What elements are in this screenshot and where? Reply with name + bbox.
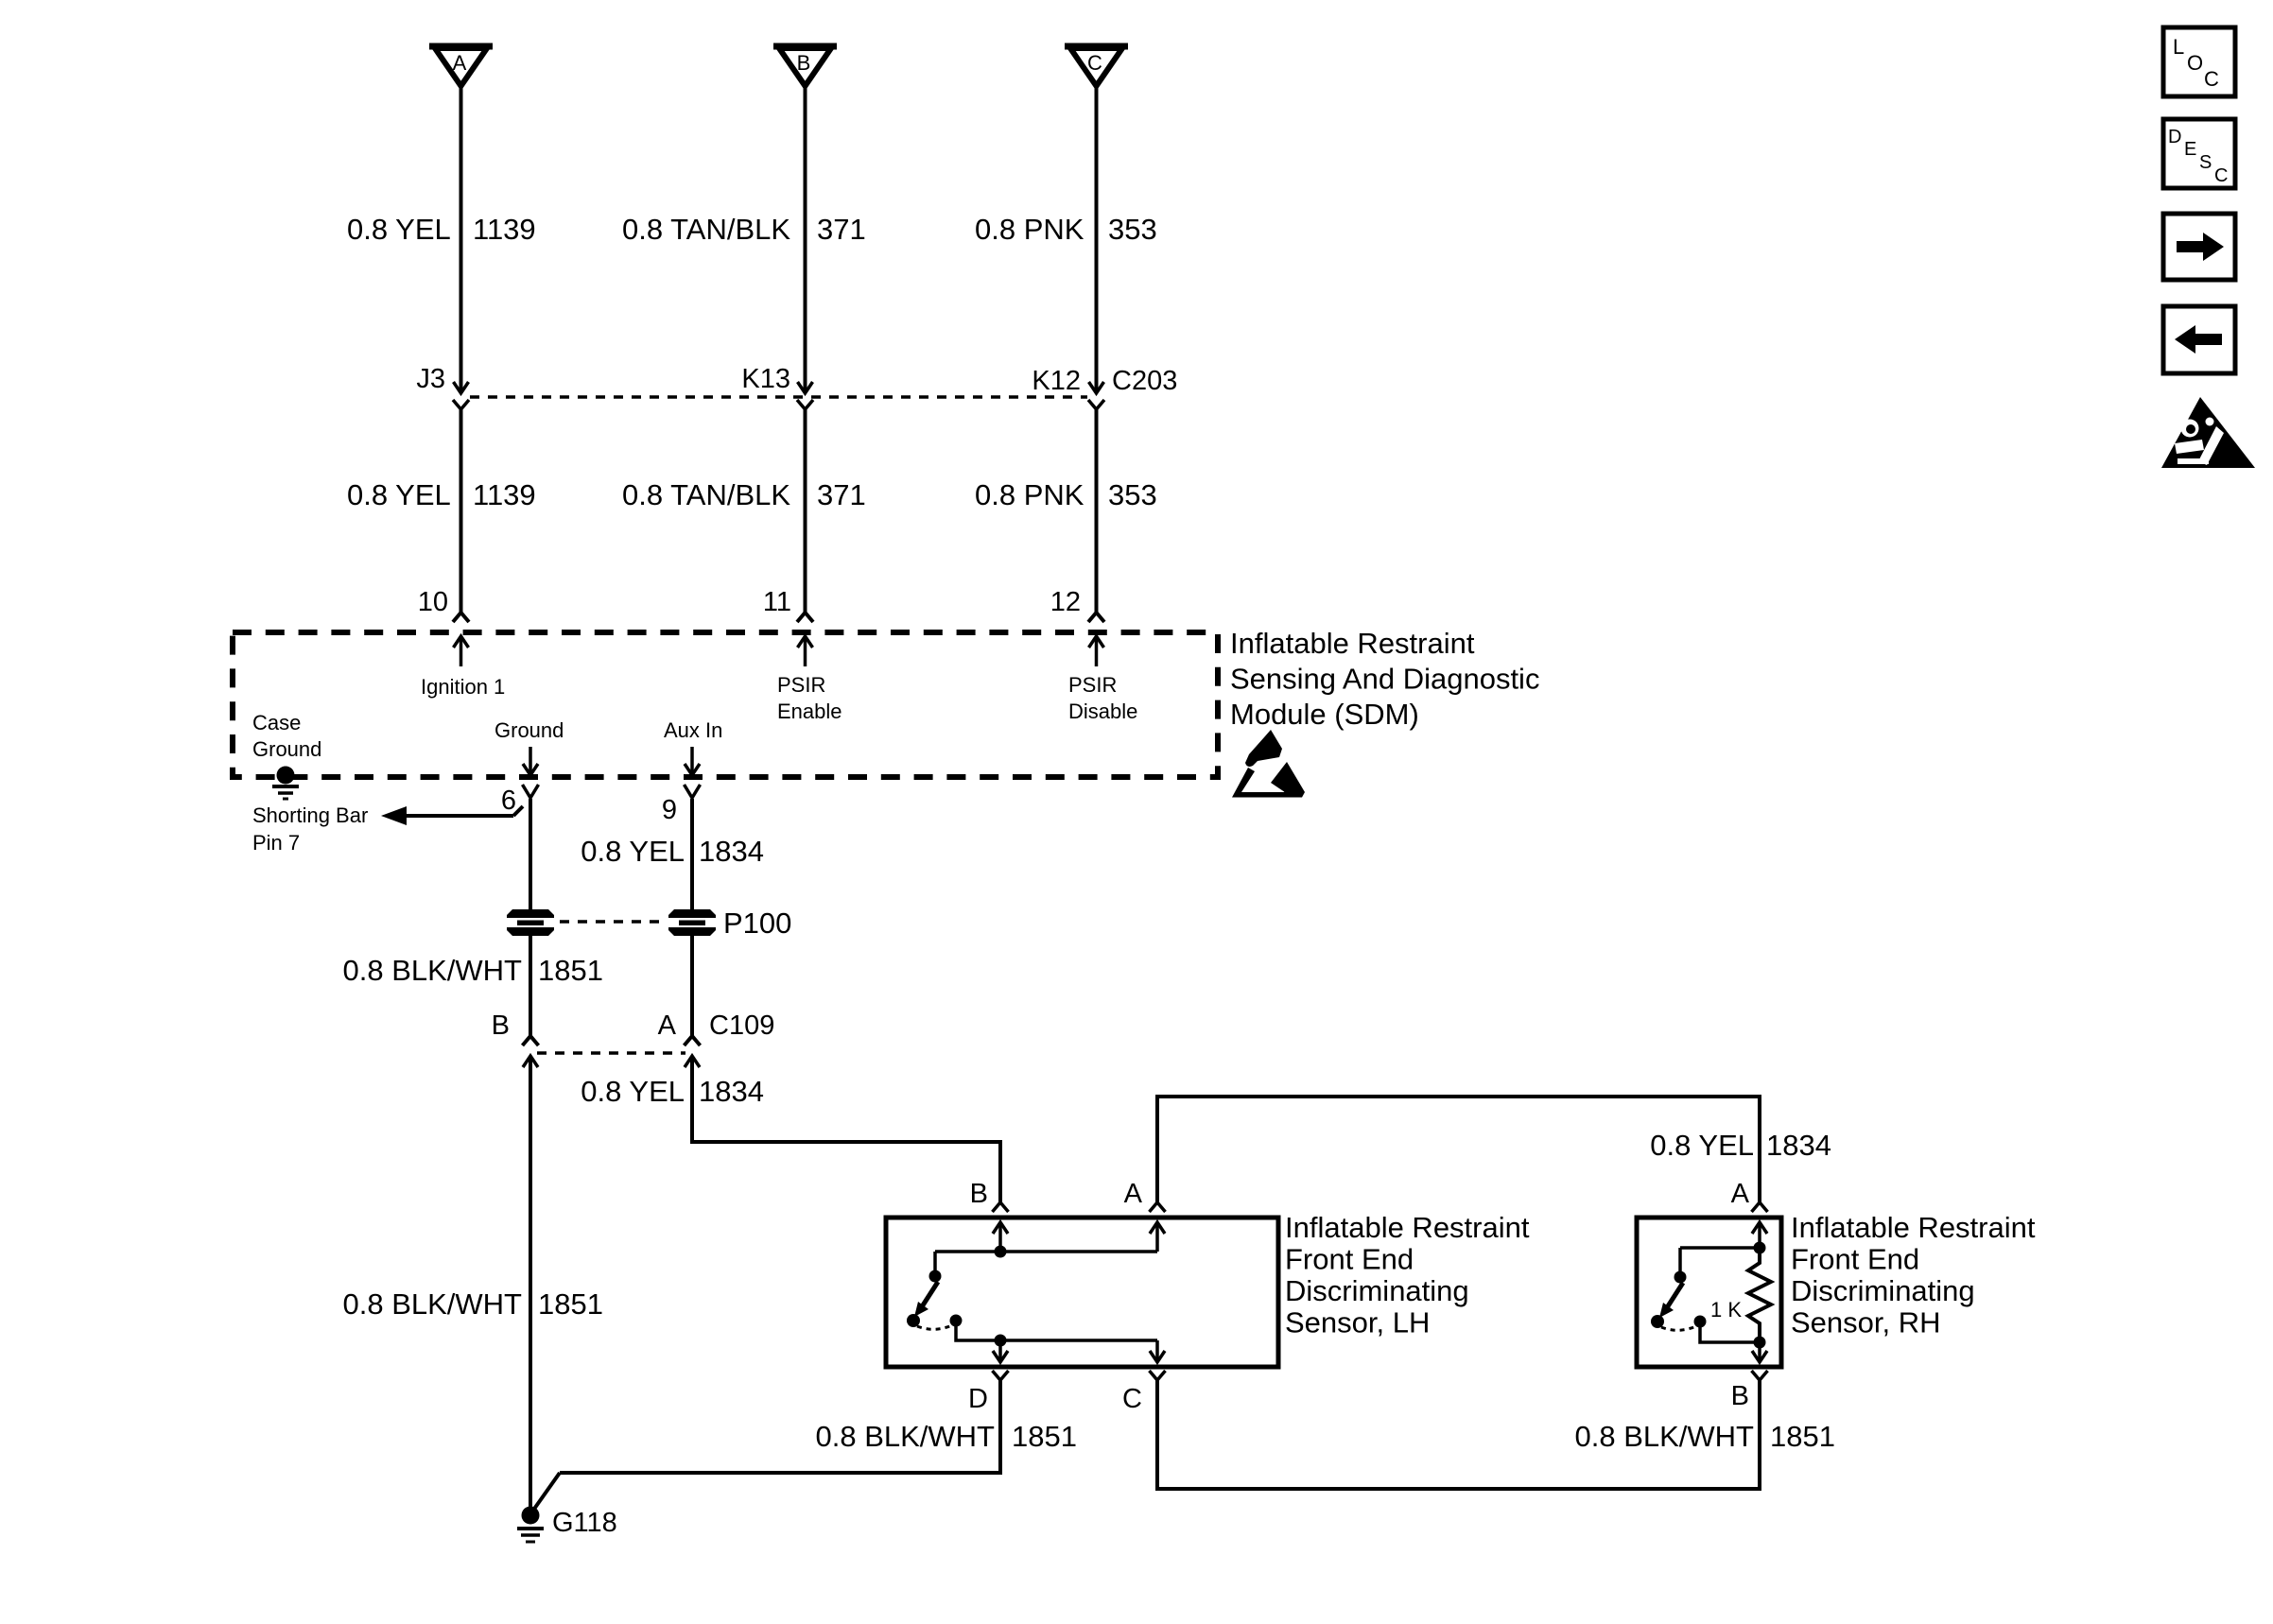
left-arrow legend box: [2163, 306, 2235, 373]
svg-text:0.8 PNK: 0.8 PNK: [975, 213, 1084, 246]
svg-text:A: A: [453, 51, 467, 75]
svg-text:K12: K12: [1032, 366, 1081, 396]
svg-text:1851: 1851: [538, 954, 603, 987]
right-arrow legend box: [2163, 214, 2235, 280]
wire pin6 to P100: [529, 799, 532, 910]
svg-text:Pin 7: Pin 7: [252, 831, 300, 855]
LH internal top rail: [935, 1250, 1157, 1253]
svg-text:G118: G118: [552, 1508, 617, 1538]
svg-text:1834: 1834: [699, 1075, 764, 1108]
label Shorting Bar Pin 7: [252, 803, 368, 855]
svg-text:353: 353: [1108, 478, 1157, 511]
svg-text:Sensor, RH: Sensor, RH: [1791, 1306, 1941, 1339]
svg-text:Inflatable Restraint: Inflatable Restraint: [1285, 1211, 1530, 1244]
RH switch dashed arc: [1661, 1326, 1696, 1330]
SDM module dashed box: [233, 632, 1218, 777]
svg-text:Shorting Bar: Shorting Bar: [252, 803, 368, 827]
svg-text:0.8 BLK/WHT: 0.8 BLK/WHT: [1575, 1420, 1755, 1453]
LH sensor box: [886, 1218, 1278, 1367]
connector C203 dashed line: [470, 395, 1087, 399]
svg-text:Enable: Enable: [777, 700, 842, 723]
LH internal bottom rail: [956, 1321, 1157, 1340]
svg-text:10: 10: [418, 587, 448, 617]
svg-text:D: D: [968, 1384, 988, 1414]
svg-text:0.8 YEL: 0.8 YEL: [581, 1075, 685, 1108]
LOC legend box: [2163, 27, 2235, 96]
label 0.8 YEL 1139 (lower A): [347, 478, 536, 511]
LH pin C internal arrow: [1150, 1340, 1165, 1362]
RH pin B internal arrow: [1752, 1342, 1767, 1362]
LH switch blade arrow: [914, 1282, 938, 1317]
svg-text:0.8 BLK/WHT: 0.8 BLK/WHT: [816, 1420, 996, 1453]
RH internal top rail: [1680, 1246, 1760, 1250]
label 0.8 TAN/BLK 371 (lower B): [622, 478, 866, 511]
svg-text:C: C: [2214, 165, 2228, 186]
svg-text:K13: K13: [741, 364, 790, 394]
svg-text:0.8 YEL: 0.8 YEL: [347, 478, 451, 511]
label 0.8 YEL 1139 (upper A): [347, 213, 536, 246]
label PSIR Enable: [777, 673, 842, 723]
connector K12 pin (C203): [1088, 400, 1104, 409]
svg-text:Ground: Ground: [495, 718, 564, 742]
svg-text:A: A: [658, 1011, 677, 1041]
svg-text:1 K: 1 K: [1710, 1298, 1742, 1322]
wire LH pin C to RH pin B: [1157, 1380, 1760, 1489]
wire LH pin D to ground run: [532, 1380, 1000, 1512]
wire B lower (0.8 TAN/BLK 371): [797, 409, 813, 622]
svg-text:Ignition 1: Ignition 1: [421, 675, 505, 699]
SDM pin 11 arrow (PSIR Enable): [798, 636, 813, 666]
wire BLK/WHT 1851 from C109 B down to G118: [529, 1056, 532, 1510]
svg-text:6: 6: [501, 786, 516, 816]
svg-text:0.8 BLK/WHT: 0.8 BLK/WHT: [343, 954, 523, 987]
P100 dashed link: [560, 920, 664, 924]
LH pin D chevron: [993, 1371, 1009, 1380]
connector K13 pin (C203): [797, 400, 813, 409]
svg-text:Sensor, LH: Sensor, LH: [1285, 1306, 1430, 1339]
svg-text:Aux In: Aux In: [664, 718, 722, 742]
LH switch contact dot left: [907, 1314, 920, 1327]
svg-text:1851: 1851: [1012, 1420, 1077, 1453]
connector triangle B: [773, 46, 837, 86]
connector J3 pin (C203): [453, 400, 469, 409]
label Case Ground: [252, 711, 321, 761]
svg-text:Inflatable Restraint: Inflatable Restraint: [1230, 627, 1475, 660]
svg-text:C109: C109: [709, 1011, 774, 1041]
RH switch contact dot right: [1694, 1316, 1707, 1328]
svg-text:Discriminating: Discriminating: [1791, 1274, 1975, 1307]
svg-text:0.8 YEL: 0.8 YEL: [347, 213, 451, 246]
svg-text:C203: C203: [1112, 366, 1177, 396]
DESC legend box: [2163, 119, 2235, 188]
RH junction dot bottom: [1754, 1337, 1766, 1349]
LH pin B internal arrow: [993, 1222, 1008, 1252]
svg-text:Disable: Disable: [1068, 700, 1137, 723]
svg-text:PSIR: PSIR: [777, 673, 825, 697]
svg-text:B: B: [1731, 1381, 1749, 1411]
label 0.8 BLK/WHT 1851 (upper): [343, 954, 603, 987]
svg-text:12: 12: [1050, 587, 1081, 617]
RH junction dot top: [1754, 1242, 1766, 1254]
svg-text:1851: 1851: [1770, 1420, 1835, 1453]
svg-text:Front End: Front End: [1791, 1243, 1919, 1276]
svg-text:C: C: [1122, 1384, 1142, 1414]
svg-text:0.8 YEL: 0.8 YEL: [1650, 1129, 1754, 1162]
svg-text:Sensing And Diagnostic: Sensing And Diagnostic: [1230, 663, 1539, 696]
grommet P100 left: [507, 909, 554, 936]
LH switch pivot dot: [929, 1270, 942, 1283]
case ground symbol: [272, 767, 299, 800]
LH pin D internal arrow: [993, 1340, 1008, 1362]
wire 0.8 YEL 1834 from C109 A to LH sensor pin B: [692, 1056, 1009, 1212]
svg-text:Module (SDM): Module (SDM): [1230, 698, 1419, 731]
LH pin C chevron: [1150, 1371, 1166, 1380]
svg-text:O: O: [2187, 51, 2203, 75]
LH junction dot bottom: [995, 1335, 1007, 1347]
wire C upper (0.8 PNK 353): [1089, 86, 1104, 393]
svg-text:371: 371: [817, 213, 866, 246]
RH sensor name label: [1791, 1211, 2036, 1339]
RH internal bottom link: [1700, 1322, 1760, 1342]
ESD sensitivity icon (SDM): [1232, 730, 1305, 798]
wire P100-left to C109 B: [523, 935, 539, 1045]
svg-text:353: 353: [1108, 213, 1157, 246]
svg-text:1851: 1851: [538, 1287, 603, 1321]
label 0.8 TAN/BLK 371 (upper B): [622, 213, 866, 246]
RH pin B chevron: [1752, 1371, 1768, 1380]
label 0.8 YEL 1834 (RH): [1650, 1129, 1831, 1162]
LH junction dot top: [995, 1246, 1007, 1258]
connector triangle C: [1065, 46, 1128, 86]
svg-text:9: 9: [662, 795, 677, 825]
wire B upper (0.8 TAN/BLK 371): [798, 86, 813, 393]
svg-text:Discriminating: Discriminating: [1285, 1274, 1469, 1307]
SDM name label: [1230, 627, 1539, 731]
label PSIR Disable: [1068, 673, 1137, 723]
svg-text:0.8 TAN/BLK: 0.8 TAN/BLK: [622, 213, 790, 246]
svg-text:C: C: [1087, 51, 1102, 75]
wire pin9 to P100: [690, 799, 694, 910]
C109 pin A arrow up: [685, 1056, 700, 1067]
svg-text:Inflatable Restraint: Inflatable Restraint: [1791, 1211, 2036, 1244]
label 0.8 PNK 353 (upper C): [975, 213, 1157, 246]
svg-text:0.8 TAN/BLK: 0.8 TAN/BLK: [622, 478, 790, 511]
svg-text:1834: 1834: [699, 835, 764, 868]
svg-text:371: 371: [817, 478, 866, 511]
wire A lower (0.8 YEL 1139): [453, 409, 469, 622]
LH switch dashed arc: [917, 1325, 952, 1329]
connector triangle A: [429, 46, 493, 86]
LH switch pivot drop: [933, 1252, 937, 1272]
svg-text:1139: 1139: [473, 478, 536, 511]
svg-text:E: E: [2184, 139, 2196, 160]
RH switch contact dot left: [1651, 1315, 1664, 1328]
ground G118: [517, 1507, 544, 1543]
svg-text:0.8 PNK: 0.8 PNK: [975, 478, 1084, 511]
svg-text:Front End: Front End: [1285, 1243, 1414, 1276]
label 0.8 BLK/WHT 1851 (RH bottom): [1575, 1420, 1835, 1453]
RH switch pivot dot: [1674, 1271, 1687, 1284]
label 0.8 PNK 353 (lower C): [975, 478, 1157, 511]
svg-text:P100: P100: [723, 907, 791, 940]
RH sensor box: [1637, 1218, 1781, 1367]
svg-text:0.8 YEL: 0.8 YEL: [581, 835, 685, 868]
wire A upper (0.8 YEL 1139): [454, 86, 469, 393]
C109 pin B arrow up: [523, 1056, 538, 1067]
RH switch pivot drop: [1678, 1248, 1682, 1273]
SDM pin 10 arrow (Ignition 1): [454, 636, 469, 666]
svg-text:B: B: [492, 1011, 510, 1041]
label 0.8 BLK/WHT 1851 (long run): [343, 1287, 603, 1321]
LH sensor name label: [1285, 1211, 1530, 1339]
grommet P100 right: [668, 909, 716, 936]
RH switch blade arrow: [1659, 1283, 1683, 1318]
svg-text:L: L: [2173, 35, 2184, 59]
svg-text:1834: 1834: [1766, 1129, 1831, 1162]
LH switch contact dot right: [950, 1315, 963, 1327]
svg-text:PSIR: PSIR: [1068, 673, 1117, 697]
svg-text:11: 11: [763, 587, 791, 617]
svg-text:B: B: [970, 1179, 988, 1209]
label 0.8 YEL 1834 (C109 lower): [581, 1075, 764, 1108]
pin 9 chevron: [685, 785, 701, 798]
svg-text:A: A: [1124, 1179, 1143, 1209]
wire top rail pin A LH to pin A RH: [1150, 1097, 1768, 1212]
svg-text:D: D: [2168, 127, 2181, 147]
RH pin A internal arrow: [1752, 1222, 1767, 1248]
SIR airbag warning triangle: [2161, 397, 2255, 468]
svg-text:B: B: [797, 51, 811, 75]
LH pin A internal arrow: [1150, 1222, 1165, 1252]
label 0.8 YEL 1834 (pin 9): [581, 835, 764, 868]
svg-text:Case: Case: [252, 711, 301, 734]
svg-text:C: C: [2204, 67, 2219, 91]
wire P100-right to C109 A: [685, 935, 701, 1045]
connector C109 dashed line: [537, 1051, 685, 1055]
svg-text:0.8 BLK/WHT: 0.8 BLK/WHT: [343, 1287, 523, 1321]
SDM pin 9 arrow: [685, 747, 700, 775]
label 0.8 BLK/WHT 1851 (LH bottom): [816, 1420, 1077, 1453]
svg-text:1139: 1139: [473, 213, 536, 246]
RH resistor 1K: [1748, 1248, 1771, 1342]
svg-text:S: S: [2199, 152, 2212, 173]
SDM pin 6 arrow: [523, 747, 538, 775]
svg-text:J3: J3: [416, 364, 445, 394]
svg-text:A: A: [1731, 1179, 1750, 1209]
wire C lower (0.8 PNK 353): [1088, 409, 1104, 622]
shorting bar arrow: [381, 806, 523, 825]
SDM pin 12 arrow (PSIR Disable): [1089, 636, 1104, 666]
svg-text:Ground: Ground: [252, 737, 321, 761]
pin 6 chevron: [523, 785, 539, 798]
